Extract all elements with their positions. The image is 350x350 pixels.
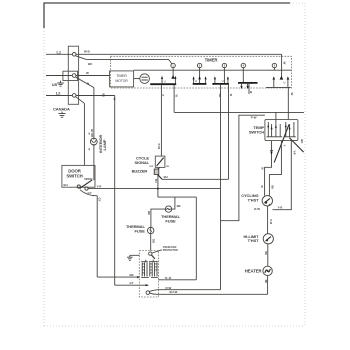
contact 5 base line (266, 86, 291, 88)
svg-text:W-B: W-B (84, 50, 90, 54)
svg-text:W: W (86, 71, 89, 75)
svg-text:Y-R: Y-R (293, 151, 296, 155)
cycling thermostat (262, 196, 272, 206)
wire temp switch BK out (269, 141, 281, 196)
terminal L2 (72, 94, 76, 98)
timer contact 5 (272, 63, 276, 67)
terminal N (72, 74, 76, 78)
door switch box (62, 165, 95, 187)
svg-text:SWITCH: SWITCH (66, 173, 82, 178)
temp switch BK lever (289, 138, 303, 152)
contact 2 arrows (193, 76, 195, 79)
svg-text:U: U (283, 80, 285, 84)
motor windings (142, 262, 157, 276)
wire BU-W motor to heater (159, 293, 268, 295)
contact 5 arrows (273, 76, 276, 79)
svg-text:T'HST: T'HST (248, 238, 260, 243)
svg-text:TIMER: TIMER (116, 74, 127, 78)
temp switch lever diagonal (274, 125, 289, 163)
wire stub contact 4 (248, 83, 250, 94)
svg-text:U: U (195, 79, 197, 83)
thermal fuse F2 (165, 206, 171, 212)
centrifugal switch (146, 291, 150, 295)
svg-text:BU: BU (164, 175, 168, 179)
svg-text:FUSE: FUSE (165, 218, 176, 223)
svg-text:TIMER: TIMER (205, 58, 219, 63)
cycle signal blade (157, 158, 164, 166)
contact 1 arrows (161, 76, 163, 79)
junction dots bar 3 (212, 83, 214, 85)
wire temp switch feed from P-W run (275, 112, 277, 119)
svg-text:BU: BU (64, 183, 68, 187)
temp switch contacts (268, 119, 294, 136)
contact 3 arrows (214, 76, 216, 79)
wire L1 to timer (W-B) (76, 53, 282, 55)
overload pointer (152, 250, 162, 253)
svg-text:BK: BK (264, 252, 267, 256)
timer motor box (110, 71, 134, 87)
wire GY into motor (97, 276, 139, 278)
border frame left dotted (43, 28, 45, 326)
wire buzzer chain to fuse run (158, 196, 196, 198)
wire R-W motor run (159, 289, 221, 291)
wire L2 branch down to door switch (83, 103, 85, 165)
wire L1 stub (46, 53, 72, 55)
terminal L1 (72, 53, 76, 57)
wire BU run to timer (162, 178, 229, 180)
door switch pivot (77, 185, 80, 188)
timer bus (134, 69, 292, 71)
wire L1 tap to contact 1 (86, 59, 171, 63)
wire N stub (46, 75, 72, 77)
border frame top right dashed (290, 2, 305, 4)
svg-text:BK: BK (271, 186, 274, 190)
wire drop W to long run (173, 84, 175, 112)
svg-text:PROTECTOR: PROTECTOR (163, 249, 178, 252)
wire GY vertical (96, 196, 98, 277)
svg-text:BU: BU (218, 94, 221, 98)
wire buzzer down (157, 174, 159, 197)
contact 2 bar (193, 83, 207, 85)
heater (263, 266, 272, 275)
wire BU vertical to timer (228, 84, 230, 179)
wire R-W vertical continuation (220, 189, 222, 290)
wire long P-W run (174, 111, 304, 113)
wire L1 down into contact 5 (281, 54, 283, 77)
wire hi-limit to heater (267, 244, 269, 266)
timer contact 4 (241, 63, 245, 67)
svg-text:BU: BU (102, 94, 105, 98)
svg-text:BK: BK (264, 280, 267, 284)
wire YL-R motor to vertical (159, 279, 197, 281)
wire temp switch feed corner (221, 115, 265, 221)
svg-text:GY: GY (130, 281, 134, 285)
wire cycling right Y-R (273, 141, 292, 210)
wire heater down (267, 276, 269, 295)
wire N to timer motor (W) (76, 75, 110, 77)
timer contact 2 (197, 63, 201, 67)
svg-text:BU-W: BU-W (170, 290, 178, 294)
door switch contact (85, 187, 88, 190)
wire Y-R vertical to timer (220, 84, 222, 189)
svg-text:T'HST: T'HST (248, 198, 260, 203)
contact 1 bar (150, 83, 176, 85)
svg-text:BU: BU (147, 211, 151, 215)
wire L1 diagonal tap (76, 56, 87, 60)
timer motor M1 (140, 74, 150, 84)
wire fuse F2 left lead (151, 209, 166, 228)
wire fuse F1 to motor (150, 233, 152, 250)
timer box dashed (111, 56, 292, 88)
svg-text:LAMP: LAMP (102, 139, 107, 150)
svg-text:US: US (52, 82, 58, 87)
wire door switch curved branch GY (80, 190, 97, 196)
contact 4 down arrows (240, 86, 242, 89)
wire L2 stub (46, 95, 72, 97)
contact 3 bar (212, 83, 229, 85)
buzzer element (154, 169, 159, 174)
hi-limit thermostat (263, 234, 273, 244)
wire temp switch W out (265, 141, 272, 196)
svg-text:BU: BU (154, 179, 157, 183)
svg-text:HEATER: HEATER (245, 268, 263, 273)
terminal block TB1 (68, 46, 78, 104)
svg-text:W: W (290, 93, 294, 96)
svg-text:CANADA: CANADA (53, 106, 70, 111)
contact 4 bar (238, 82, 258, 84)
border frame top (44, 3, 290, 28)
svg-text:W: W (283, 62, 287, 65)
timer contact 1 (171, 63, 175, 67)
wire cycling to hi-limit (267, 206, 269, 234)
wire switch to buzzer (158, 167, 160, 169)
wire drop contact 5 to temp switch (287, 87, 289, 119)
ground CANADA (58, 112, 65, 118)
wire lamp to door switch (93, 144, 95, 180)
ground motor (127, 255, 139, 260)
cycle signal switch box (155, 156, 165, 167)
arrow on W out (270, 152, 272, 155)
interior lamp (90, 138, 97, 145)
svg-text:R-W: R-W (254, 207, 260, 211)
wire N diagonal to lamp (76, 77, 94, 87)
wire right vertical to motor YL-R (195, 197, 197, 280)
svg-text:GY: GY (98, 198, 102, 202)
border frame bottom dotted (44, 325, 305, 327)
wire L2 diagonal (76, 97, 85, 104)
neutral link box (63, 71, 78, 80)
svg-text:YL-R: YL-R (165, 276, 173, 280)
svg-text:U: U (222, 79, 224, 83)
border frame right dotted (304, 3, 306, 326)
motor box dashed (139, 251, 158, 297)
svg-text:N: N (87, 81, 89, 85)
wire drop P-W to cycle signal (160, 84, 162, 156)
overload protector (149, 252, 152, 255)
junction buzzer Y-R crossing (157, 188, 159, 190)
ground US (57, 81, 63, 87)
timer contact 3 (222, 63, 226, 67)
wire lamp feed vertical (93, 88, 95, 139)
wire door switch to Y-R run (88, 188, 220, 190)
wire L2 to W drop (76, 95, 115, 97)
wire W into motor (115, 284, 148, 286)
wire box to timer motor (134, 78, 140, 80)
svg-text:SWITCH: SWITCH (249, 130, 264, 135)
svg-text:P-W: P-W (251, 115, 257, 119)
svg-text:SIGNAL: SIGNAL (134, 160, 149, 165)
door switch blade (80, 180, 93, 189)
svg-text:FUSE: FUSE (135, 229, 146, 234)
svg-text:MOTOR: MOTOR (115, 79, 128, 83)
wire fuse F2 right lead (171, 197, 175, 209)
svg-text:P-W: P-W (157, 144, 161, 150)
wire W vertical drop (114, 96, 116, 286)
svg-text:P-W: P-W (269, 220, 272, 225)
thermal fuse F1 (148, 227, 154, 233)
temp switch box (265, 119, 298, 140)
wire BU diagonal (158, 175, 162, 180)
svg-text:U: U (164, 79, 166, 83)
svg-text:GY: GY (88, 191, 92, 195)
svg-text:BUZZER: BUZZER (132, 168, 148, 173)
